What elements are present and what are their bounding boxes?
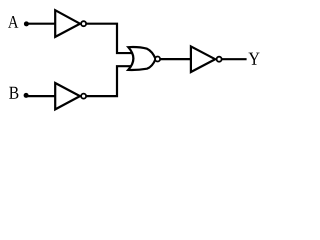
node B [9, 87, 18, 99]
node A terminal dot [24, 21, 29, 26]
nor gate U3 [128, 47, 160, 70]
inverter U2 [55, 83, 86, 109]
node Y [249, 53, 260, 65]
wire U1 output to NOR U3 top input [84, 24, 134, 53]
wire B to inverter U2 input [26, 95, 56, 97]
wire U3 output to inverter U4 input [158, 58, 192, 60]
inverter U4 [191, 46, 222, 72]
wire U2 output to NOR U3 bottom input [84, 66, 134, 96]
node B terminal dot [24, 93, 29, 98]
wire A to inverter U1 input [26, 23, 56, 25]
inverter U1 [55, 10, 86, 37]
node A [8, 16, 18, 28]
wire U4 output to Y [219, 58, 247, 60]
